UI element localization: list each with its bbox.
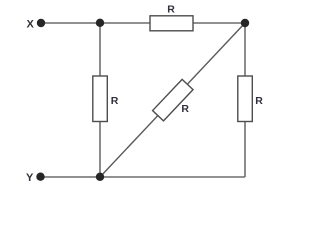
- wire: left branch lower segment: [99, 122, 101, 178]
- resistor R1 (top horizontal): [150, 16, 193, 31]
- node Y terminal dot: [36, 173, 44, 181]
- resistor R2 (left vertical): [93, 76, 108, 122]
- wire: top resistor to top-right node: [193, 22, 245, 24]
- wire: X terminal to top-left junction: [41, 22, 100, 24]
- wire: right branch lower segment: [244, 122, 246, 178]
- junction node at top of left branch: [96, 19, 104, 27]
- resistor R3 (diagonal): [153, 79, 193, 121]
- svg-text:R: R: [111, 95, 119, 107]
- wire: diagonal from bottom junction to top-right node: [100, 23, 245, 177]
- svg-text:R: R: [167, 4, 175, 16]
- wire: left branch upper segment: [99, 23, 101, 76]
- node X terminal dot: [37, 19, 45, 27]
- wire: right branch upper segment: [244, 23, 246, 76]
- wire: bottom rail junction to bottom-right corner: [100, 176, 245, 178]
- junction node at bottom of left branch: [96, 173, 104, 181]
- wire: Y terminal to bottom junction: [40, 176, 100, 178]
- svg-text:R: R: [181, 103, 189, 115]
- svg-text:Y: Y: [26, 172, 34, 184]
- wire: top-left junction to top resistor: [100, 22, 150, 24]
- svg-text:R: R: [255, 95, 263, 107]
- node at top-right corner: [241, 19, 249, 27]
- resistor R4 (right vertical): [238, 76, 253, 122]
- svg-text:X: X: [27, 18, 35, 30]
